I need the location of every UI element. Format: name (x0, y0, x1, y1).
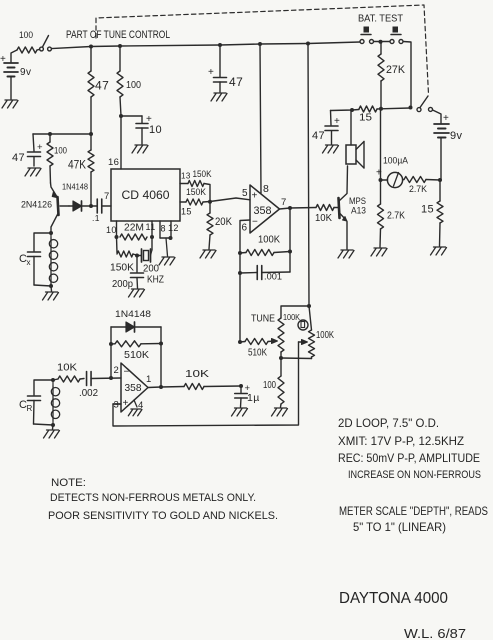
svg-text:10: 10 (106, 225, 117, 235)
wire: feedback rail (113, 358, 299, 426)
ground (Q2 emitter) (338, 250, 354, 258)
svg-text:15: 15 (181, 207, 192, 217)
node: Cr tank top (51, 378, 55, 382)
capacitor 47uF (left, x34) (12, 134, 43, 166)
ground (2.7K) (371, 248, 387, 256)
svg-text:9v: 9v (20, 67, 31, 78)
pin 6 wire (240, 220, 250, 253)
ground (Cr tank) (44, 425, 60, 438)
svg-text:510K: 510K (248, 347, 267, 359)
svg-text:1N4148: 1N4148 (115, 309, 151, 320)
wire: top supply rail (51, 42, 360, 49)
svg-text:7: 7 (104, 191, 110, 202)
battery 9V (left) (0, 50, 31, 99)
svg-text:.001: .001 (264, 272, 282, 283)
node: pin2 junction (109, 376, 113, 380)
wire: vertical to tune pot (307, 44, 311, 309)
node: diode-cap junction (89, 204, 93, 208)
potentiometer TUNE 100K (251, 312, 308, 358)
resistor 2.7K (vertical) (378, 180, 406, 247)
svg-text:16: 16 (108, 157, 119, 168)
svg-text:+: + (208, 67, 214, 78)
svg-text:2D LOOP, 7.5" O.D.: 2D LOOP, 7.5" O.D. (338, 416, 439, 430)
node: tank bottom (49, 284, 53, 288)
svg-text:.1: .1 (92, 213, 100, 223)
wire: feedback left vertical (109, 327, 113, 378)
node: 1uF junction (239, 384, 243, 388)
capacitor 10uF (+10) (121, 114, 162, 144)
ground (left battery) (2, 100, 18, 108)
resistor 2.7K (horizontal) (403, 177, 440, 195)
svg-text:200: 200 (143, 264, 159, 275)
svg-text:R: R (27, 404, 33, 413)
ground (Cx tank) (43, 286, 59, 300)
resistor 100 (vertical, x120) (117, 46, 141, 116)
label: BAT. TEST (358, 13, 404, 25)
svg-text:7: 7 (281, 197, 287, 208)
pin 11 stub (151, 221, 153, 237)
capacitor 0.1uF (.1) (91, 191, 111, 223)
svg-text:47K: 47K (68, 160, 86, 172)
svg-text:9v: 9v (450, 130, 463, 142)
ground (cap 47 left) (25, 168, 41, 176)
node: 150K junction (208, 200, 212, 204)
svg-text:20K: 20K (215, 216, 233, 228)
wire: bat test to switch (403, 42, 412, 110)
svg-text:100: 100 (54, 146, 67, 157)
svg-text:150K: 150K (193, 169, 213, 180)
svg-text:METER SCALE "DEPTH", READS: METER SCALE "DEPTH", READS (339, 504, 488, 518)
svg-text:8: 8 (161, 224, 166, 234)
svg-text:12: 12 (168, 223, 179, 233)
pin 12 stub (160, 221, 179, 240)
op-amp U3 358 (lower) (114, 363, 152, 412)
svg-text:.002: .002 (79, 388, 98, 399)
svg-text:100: 100 (19, 30, 33, 41)
wire: meter branch vertical (379, 109, 383, 182)
wire: to pin 16 (108, 116, 121, 169)
svg-text:NOTE:: NOTE: (51, 477, 86, 489)
svg-text:10K: 10K (315, 212, 332, 224)
node: tune pot bottom (279, 356, 283, 360)
svg-text:47: 47 (95, 79, 109, 93)
IC U1 CD4060 (111, 169, 180, 221)
wire: bias rail y110 (331, 108, 360, 112)
svg-text:200p: 200p (112, 279, 133, 290)
svg-text:10K: 10K (185, 368, 209, 380)
diode D2 1N4148 (feedback) (111, 309, 161, 332)
resistor 100K (feedback) (240, 234, 292, 256)
resistor 22M (120, 222, 156, 241)
pin 7 output wire (280, 197, 317, 210)
ground (cap 47 top) (211, 93, 227, 101)
wire: dashed boundary of tune control (96, 5, 429, 94)
svg-text:10: 10 (149, 124, 162, 136)
svg-text:DETECTS NON-FERROUS METALS ONL: DETECTS NON-FERROUS METALS ONLY. (50, 492, 256, 504)
resistor 15 (horizontal) (359, 106, 377, 124)
svg-text:5: 5 (242, 188, 248, 199)
resistor 10K (input) (53, 362, 84, 383)
svg-text:47: 47 (312, 130, 325, 142)
resistor 10K (to Q2 base) (315, 205, 338, 225)
svg-text:1N4148: 1N4148 (62, 182, 88, 192)
node: collector junction (49, 231, 53, 235)
ground (pins 8/12) (159, 238, 175, 265)
switch S2 (right power) (417, 96, 433, 112)
svg-text:358: 358 (254, 205, 272, 217)
resistor 510K (feedback) (111, 341, 163, 361)
node: rail junction dots (89, 42, 310, 49)
ground (1uF) (232, 408, 248, 416)
resistor 100 (below tune) (263, 358, 284, 407)
svg-text:15: 15 (421, 204, 434, 216)
resistor 100 (to 2N4126) (47, 134, 67, 183)
svg-text:100K: 100K (316, 329, 334, 341)
node: junction x121 y116 (119, 114, 123, 118)
pushbutton SW2a (bat test 1) (360, 27, 374, 44)
resistor 150K (oscillator) (110, 237, 136, 274)
ground (15 vertical) (431, 247, 447, 255)
svg-text:TUNE: TUNE (251, 313, 275, 325)
svg-text:1µ: 1µ (247, 392, 260, 404)
pin 8 wire (op-amp V+) (260, 44, 269, 195)
svg-text:CD 4060: CD 4060 (122, 188, 170, 202)
op-amp U2 358 (upper) (250, 185, 280, 233)
pushbutton SW2b (bat test 2) (390, 27, 403, 44)
svg-text:15: 15 (359, 112, 372, 124)
svg-text:5" TO 1" (LINEAR): 5" TO 1" (LINEAR) (353, 520, 446, 534)
switch S1 (tune power) (37, 36, 51, 51)
capacitor Cr (19, 380, 53, 425)
svg-text:47: 47 (12, 152, 25, 164)
ground (cap 47 mid) (323, 145, 339, 153)
svg-text:100: 100 (126, 79, 141, 91)
svg-text:2N4126: 2N4126 (21, 200, 52, 210)
svg-text:+: + (0, 54, 6, 65)
inductor Lx (transmit coil) (49, 233, 57, 286)
svg-text:3: 3 (114, 400, 120, 411)
svg-text:A13: A13 (351, 206, 366, 217)
svg-text:150K: 150K (186, 187, 207, 198)
svg-text:−: − (124, 367, 130, 378)
transistor Q1 2N4126 (21, 183, 69, 233)
svg-text:W.L. 6/87: W.L. 6/87 (404, 626, 466, 640)
resistor 20K (207, 202, 233, 249)
node: battery-15 junction (438, 178, 442, 182)
svg-text:2: 2 (114, 365, 120, 376)
svg-text:27K: 27K (386, 64, 406, 76)
spec text block (338, 416, 481, 481)
resistor 27K (378, 42, 406, 109)
svg-text:100: 100 (263, 379, 276, 391)
wire: between buttons (374, 40, 390, 44)
potentiometer 100K (right) (309, 306, 335, 359)
svg-text:11: 11 (146, 222, 156, 232)
resistor 10K (output) (161, 368, 241, 390)
svg-text:+: + (252, 191, 258, 202)
wire: feedback right vertical (U3) (160, 327, 162, 387)
resistor 15 (vertical) (421, 180, 443, 246)
svg-text:KHZ: KHZ (147, 275, 164, 286)
svg-text:BAT. TEST: BAT. TEST (358, 13, 404, 25)
wire: feedback right vertical (289, 208, 291, 272)
wire: integrator vertical (239, 253, 241, 342)
capacitor 47uF (x331) (312, 111, 340, 145)
svg-text:358: 358 (125, 382, 142, 394)
svg-text:+: + (123, 398, 129, 409)
svg-text:+: + (443, 113, 449, 124)
svg-text:REC: 50mV P-P, AMPLITUDE: REC: 50mV P-P, AMPLITUDE (338, 451, 480, 465)
wire: pot bottom link (281, 357, 312, 360)
svg-text:2.7K: 2.7K (409, 184, 427, 194)
svg-text:510K: 510K (124, 349, 149, 361)
capacitor 200p (112, 256, 144, 291)
meter M1 100uA (376, 156, 409, 188)
diode D1 1N4148 (62, 182, 91, 212)
wire: to op-amp pin 5 (210, 188, 250, 202)
svg-text:+: + (376, 168, 382, 179)
node: pin10 junction (115, 235, 155, 239)
ground (200p) (129, 289, 145, 297)
wire: branch rail y134 (33, 132, 93, 136)
pin 10 stub (106, 221, 117, 237)
wiper of 100K pot (299, 340, 308, 359)
svg-text:8: 8 (263, 183, 269, 195)
resistor 510K (to tune wiper) (240, 339, 278, 359)
speaker SP1 (346, 110, 364, 168)
svg-text:−: − (252, 217, 258, 228)
svg-text:2.7K: 2.7K (387, 211, 405, 222)
svg-text:XMIT: 17V P-P, 12.5KHZ: XMIT: 17V P-P, 12.5KHZ (338, 434, 464, 448)
svg-text:13: 13 (181, 172, 191, 181)
svg-text:10K: 10K (57, 362, 77, 374)
svg-text:100µA: 100µA (383, 156, 409, 167)
transistor Q2 MPS A13 (339, 166, 367, 249)
title DAYTONA 4000 (339, 590, 448, 607)
svg-text:100K: 100K (258, 234, 280, 246)
svg-text:PART OF TUNE CONTROL: PART OF TUNE CONTROL (66, 29, 170, 41)
pin 13 stub + resistor 150K (upper) (180, 169, 212, 202)
node: 510K junction (238, 340, 242, 344)
capacitor 1uF (235, 383, 260, 407)
svg-text:INCREASE ON NON-FERROUS: INCREASE ON NON-FERROUS (348, 469, 481, 481)
signature W.L. 6/87 (404, 626, 466, 640)
battery 9V (right) (433, 110, 463, 180)
label: PART OF TUNE CONTROL (66, 29, 170, 41)
svg-text:47: 47 (229, 75, 243, 89)
capacitor .002 (79, 372, 121, 400)
node: crystal junction (135, 254, 139, 258)
node: Cr tank bottom (51, 423, 55, 427)
svg-text:100K: 100K (283, 312, 300, 322)
svg-text:POOR SENSITIVITY TO GOLD AND N: POOR SENSITIVITY TO GOLD AND NICKELS. (48, 510, 278, 522)
pin 4 stub + ground (128, 400, 142, 416)
meter scale text (339, 504, 488, 534)
wire: tune top link (281, 306, 309, 318)
ground (cap 10) (132, 145, 148, 153)
svg-text:6: 6 (242, 223, 248, 234)
pin 15 stub + resistor 150K (lower) (180, 187, 210, 217)
capacitor .001 (240, 266, 290, 283)
svg-text:150K: 150K (110, 262, 134, 274)
inductor Lr (receive coil) (51, 380, 59, 425)
svg-text:22M: 22M (124, 222, 144, 234)
capacitor 47uF (top, x220) (208, 45, 243, 92)
wire: U3 output (148, 386, 161, 389)
resistor 47K (68, 134, 94, 206)
wire: pin 3 link (113, 403, 121, 405)
resistor 47 (vertical, x91) (88, 47, 109, 135)
node: 27K junction (377, 107, 410, 111)
ground (20K) (200, 250, 216, 258)
node: output junction (159, 385, 163, 389)
pin 8 stub (160, 221, 166, 238)
svg-text:DAYTONA 4000: DAYTONA 4000 (339, 590, 448, 607)
svg-text:x: x (27, 258, 31, 267)
node: feedback left junctions (238, 251, 242, 275)
capacitor Cx (19, 233, 51, 286)
ground (100 below tune) (272, 408, 288, 416)
crystal Y1 200KHZ (137, 237, 164, 286)
resistor R 100 (top left) (17, 30, 37, 53)
note text block (48, 477, 278, 522)
svg-text:1: 1 (146, 374, 152, 385)
